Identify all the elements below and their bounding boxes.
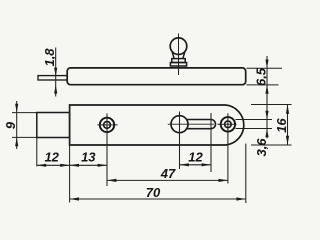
dimension 9 arrow top [15,104,18,113]
dimension 16 arrow bottom [286,136,289,145]
extension line plate right end [245,144,247,204]
svg-text:16: 16 [274,118,289,133]
dimension 16 extension lines [251,104,292,106]
dimension 13 line [70,164,107,166]
dimension 16 arrow top [286,105,289,114]
slot width extension lines to 3,6 [236,119,273,121]
plan view plate (70 x 16, rounded right end) [70,105,244,145]
extension line plate left edge [69,105,71,203]
left hole outer [100,118,114,132]
knob flange upper [172,59,185,63]
svg-text:13: 13 [81,150,96,165]
svg-text:1,8: 1,8 [42,48,57,67]
slot (3.6 wide) [187,120,216,129]
svg-text:3,6: 3,6 [254,138,269,157]
right hole outer [221,117,235,131]
extension line rod left end [36,113,38,167]
dimension 6,5 arrow top [265,60,268,69]
bolt rod plan (9 wide) [37,113,70,138]
knob ball [170,38,187,55]
svg-text:6,5: 6,5 [254,67,269,86]
dimension 1,8 line [55,48,57,97]
slot end vertical extension [210,113,212,172]
keyhole vertical centerline / extension [179,112,181,170]
dimension 47 line [107,179,228,181]
dimension 9 extension lines [12,112,37,114]
svg-text:70: 70 [146,185,161,200]
left hole vertical centerline / extension [106,113,108,186]
dimension 12 right line [180,164,212,166]
svg-text:12: 12 [188,149,203,164]
side view bar (slide bolt body, 70 long, 6.5 high) [67,68,246,85]
dimension 1,8 arrow bottom [54,85,57,94]
dimension 13 arrows [70,164,79,167]
dimension 12 left arrows [37,164,46,167]
dimension 9 line [16,101,18,149]
dimension 6,5 extension lines [247,67,283,69]
right hole inner [225,121,232,128]
knob centerline [178,34,180,76]
keyhole circle [171,116,188,133]
dimension 3,6 arrow top [265,111,268,120]
knob neck [172,52,185,59]
dimension 9 arrow bottom [15,137,18,146]
dimension 6,5 / 3,6 shared line [266,56,268,138]
dimension 16 line [287,105,289,146]
dimension 6,5 arrow bottom [265,85,268,94]
left hole inner [104,122,111,129]
dimension 3,6 arrow bottom [265,129,268,138]
right hole horizontal centerline [217,123,236,125]
dimension 70 line [70,198,246,200]
dimension 1,8 arrow top [54,68,57,77]
dimension 12 right arrows [180,163,189,166]
right hole vertical centerline / extension [227,113,229,183]
left hole horizontal centerline [97,124,117,126]
dimension 47 arrows [107,179,116,182]
keyhole horizontal centerline [168,123,214,125]
dimension 12 left line [37,164,70,166]
bolt rod (side view, 1.8 thick) [38,76,67,80]
svg-text:9: 9 [3,121,18,129]
svg-text:12: 12 [44,150,59,165]
svg-text:47: 47 [160,166,176,181]
dimension 70 arrows [70,197,79,200]
knob flange lower [170,63,186,67]
